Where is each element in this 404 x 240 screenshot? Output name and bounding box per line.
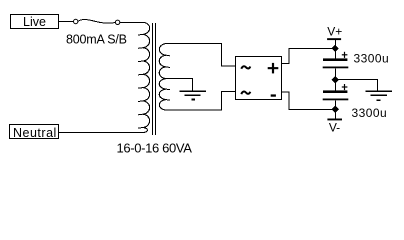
svg-text:Live: Live: [23, 15, 46, 29]
svg-text:800mA S/B: 800mA S/B: [66, 33, 127, 47]
svg-text:3300u: 3300u: [352, 106, 388, 120]
svg-text:V-: V-: [329, 120, 340, 134]
svg-text:V+: V+: [327, 25, 342, 39]
svg-text:16-0-16 60VA: 16-0-16 60VA: [117, 141, 193, 156]
svg-text:3300u: 3300u: [354, 52, 390, 66]
svg-text:Neutral: Neutral: [13, 126, 57, 140]
